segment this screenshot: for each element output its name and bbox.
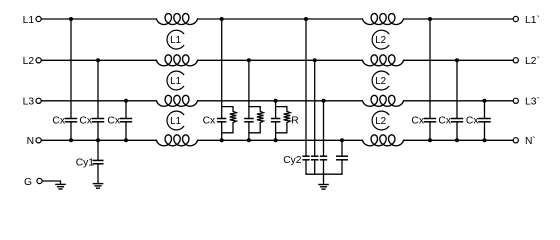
svg-text:N`: N` [525, 135, 536, 147]
node junction on L1 at x=430.0 [428, 17, 432, 21]
node junction on L3 at x=126.0 [124, 99, 128, 103]
capacitor Cx (middle combo 2) [244, 119, 254, 122]
inductor winding choke L1 row L3 [157, 95, 198, 106]
inductor winding choke L2 row N [363, 135, 404, 146]
node junction on L3 at x=484.5 [483, 99, 487, 103]
node junction on N at x=248.9 [247, 138, 251, 142]
wire vertical N down to Cy2 cap #4 [341, 140, 343, 156]
wire row L2 left segment [41, 59, 156, 61]
capacitor Cy2 #1 [302, 156, 309, 160]
node junction on N at x=342.0 [340, 138, 344, 142]
wire row L2 right segment [404, 59, 514, 61]
terminal L1` (right) [513, 16, 518, 21]
node junction on L3 at x=323.5 [322, 99, 326, 103]
ground symbol below Cy1 [93, 184, 104, 189]
node junction on N at x=126.0 [124, 138, 128, 142]
svg-text:Cx: Cx [107, 116, 120, 127]
ground symbol below Cy2 [318, 185, 329, 190]
wire vertical L2 to N at x=98.0 (input side) [97, 60, 99, 118]
choke core symbol L2 #2 [372, 71, 389, 90]
node junction on N at x=98.0 [96, 138, 100, 142]
resistor R (middle combo 2) [257, 107, 264, 133]
svg-text:L1: L1 [170, 116, 181, 127]
wire vertical L1 to N at x=430.0 (output side) [429, 19, 431, 119]
svg-text:L2`: L2` [525, 55, 540, 67]
terminal L3` (right) [513, 98, 518, 103]
wire vertical L1 down to RC combo 1 [221, 19, 223, 119]
node junction on L2 at x=457.0 [455, 58, 459, 62]
wire row L3 middle segment [198, 100, 363, 102]
wire G stub [42, 181, 60, 184]
inductor winding choke L2 row L1 [363, 14, 404, 25]
inductor winding choke L1 row L1 [157, 14, 198, 25]
svg-text:Cx: Cx [52, 116, 65, 127]
svg-text:L1: L1 [23, 15, 35, 26]
capacitor Cx (input) #1 [65, 119, 77, 122]
wire row L1 middle segment [198, 18, 363, 20]
capacitor Cx (output) #1 [424, 119, 436, 122]
wire row L1 left segment [41, 18, 156, 20]
svg-text:Cy2: Cy2 [283, 155, 302, 166]
svg-text:Cy1: Cy1 [76, 157, 95, 168]
wire vertical L1 down to Cy2 cap #1 [305, 19, 307, 156]
terminal G [37, 178, 42, 183]
wire vertical L1 to N at x=71.0 (input side) [70, 19, 72, 119]
wire row L3 left segment [41, 100, 156, 102]
wire combo 2 top/bottom bars [249, 106, 260, 108]
node junction on L1 at x=306.0 [304, 17, 308, 21]
wire vertical L2 down to Cy2 cap #2 [314, 60, 316, 156]
wire row L2 middle segment [198, 59, 363, 61]
inductor winding choke L1 row N [157, 135, 198, 146]
svg-text:G: G [24, 177, 32, 188]
node junction on L2 at x=248.9 [247, 58, 251, 62]
node junction on L1 at x=71.0 [69, 17, 73, 21]
wire vertical L3 to N at x=126.0 (input side) [125, 101, 127, 119]
terminal L3 (left) [36, 98, 41, 103]
wire row N left segment [41, 139, 156, 141]
capacitor Cy1 N to ground [97, 140, 99, 160]
choke core symbol L2 #1 [372, 30, 389, 49]
inductor winding choke L2 row L3 [363, 95, 404, 106]
capacitor Cx (output) #2 [451, 119, 463, 122]
inductor winding choke L2 row L2 [363, 55, 404, 66]
svg-text:L2: L2 [375, 76, 386, 87]
choke core symbol L2 #3 [372, 111, 389, 130]
node junction on L3 at x=275.6 [274, 99, 278, 103]
capacitor Cy2 #2 [311, 156, 318, 160]
wire Cy2 common bus [306, 173, 342, 175]
resistor R (middle combo 1) [230, 107, 237, 133]
svg-text:L3: L3 [23, 97, 35, 108]
terminal N` (right) [513, 138, 518, 143]
capacitor Cy2 #4 [336, 156, 348, 160]
node junction on L1 at x=221.7 [220, 17, 224, 21]
wire row L1 right segment [404, 18, 514, 20]
svg-text:Cx: Cx [466, 116, 479, 127]
choke core symbol L1 #3 [167, 111, 184, 130]
inductor winding choke L1 row L2 [157, 55, 198, 66]
svg-text:R: R [291, 116, 298, 127]
capacitor Cx (input) #3 [120, 119, 132, 122]
node junction on N at x=71.0 [69, 138, 73, 142]
wire row N right segment [404, 139, 514, 141]
svg-text:L3`: L3` [525, 96, 540, 108]
svg-text:L1`: L1` [525, 14, 540, 26]
wire Cy1 to ground [97, 164, 99, 184]
choke core symbol L1 #1 [167, 30, 184, 49]
wire vertical L2 down to RC combo 2 [248, 60, 250, 118]
node junction on N at x=457.0 [455, 138, 459, 142]
terminal N (left) [36, 138, 41, 143]
svg-text:Cx: Cx [79, 116, 92, 127]
ground symbol at G [55, 184, 66, 189]
resistor R (middle combo 3) [284, 107, 291, 133]
wire combo 3 top/bottom bars [276, 106, 287, 108]
svg-text:N: N [27, 136, 34, 147]
svg-text:Cx: Cx [203, 116, 216, 127]
svg-text:Cx: Cx [438, 116, 451, 127]
svg-text:Cx: Cx [411, 116, 424, 127]
wire combo 1 top/bottom bars [222, 106, 233, 108]
node junction on L2 at x=98.0 [96, 58, 100, 62]
node junction on N at x=430.0 [428, 138, 432, 142]
wire vertical L3 down to RC combo 3 [275, 101, 277, 119]
node junction on N at x=275.6 [274, 138, 278, 142]
wire row L3 right segment [404, 100, 514, 102]
choke core symbol L1 #2 [167, 71, 184, 90]
capacitor Cx (middle combo 3) [271, 119, 281, 122]
svg-text:L2: L2 [375, 35, 386, 46]
terminal L1 (left) [36, 16, 41, 21]
svg-text:L1: L1 [170, 35, 181, 46]
capacitor Cx (output) #3 [478, 119, 491, 122]
node junction on N at x=221.7 [220, 138, 224, 142]
capacitor Cx (input) #2 [92, 119, 104, 122]
capacitor Cy2 #3 [320, 156, 327, 160]
capacitor Cx (middle combo 1) [217, 119, 227, 122]
wire vertical L2 to N at x=457.0 (output side) [456, 60, 458, 118]
wire Cy2 bus to ground [323, 174, 325, 184]
wire row N middle segment [198, 139, 363, 141]
svg-text:L1: L1 [170, 76, 181, 87]
wire vertical L3 to N at x=484.5 (output side) [484, 101, 486, 119]
node junction on N at x=484.5 [483, 138, 487, 142]
svg-text:L2: L2 [23, 56, 35, 67]
wire vertical L3 down to Cy2 cap #3 [323, 101, 325, 156]
svg-text:L2: L2 [375, 116, 386, 127]
terminal L2` (right) [513, 58, 518, 63]
terminal L2 (left) [36, 58, 41, 63]
node junction on L2 at x=314.7 [313, 58, 317, 62]
